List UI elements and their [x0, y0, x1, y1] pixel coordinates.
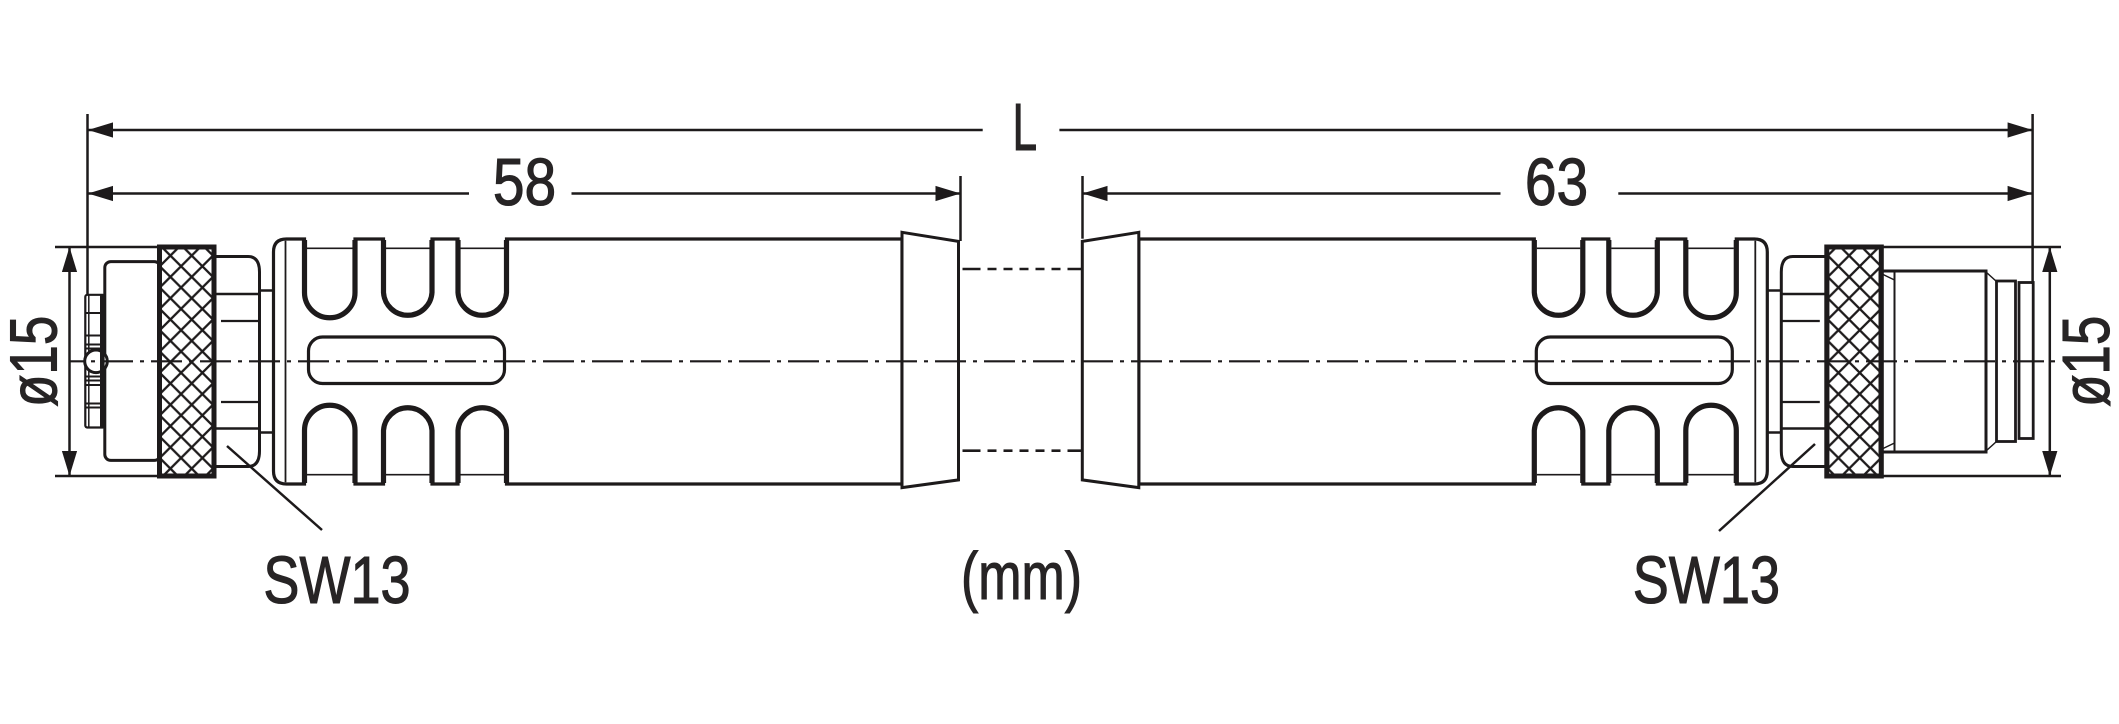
- right connector step cylinder: [1997, 281, 2016, 442]
- socket center circle: [85, 350, 108, 373]
- dimension dia 15 right: [1878, 247, 2061, 476]
- svg-text:(mm): (mm): [961, 539, 1082, 614]
- socket face ring bar: [100, 296, 105, 427]
- SW13 leader right: [1719, 444, 1815, 531]
- SW13 leader left: [227, 446, 322, 530]
- left connector socket face plate: [85, 295, 105, 428]
- dimension 63: [1081, 176, 1084, 239]
- svg-text:L: L: [1013, 91, 1038, 165]
- right connector common back half (mirrored): [1082, 232, 1881, 487]
- svg-text:63: 63: [1525, 146, 1588, 220]
- svg-text:ø15: ø15: [0, 316, 71, 407]
- dimension L: [86, 114, 89, 295]
- svg-text:58: 58: [493, 146, 556, 220]
- right connector tip: [2019, 283, 2033, 439]
- cable break dashed outlines: [963, 269, 1083, 451]
- dimension dia 15 left: [55, 247, 160, 476]
- svg-text:ø15: ø15: [2048, 316, 2119, 407]
- svg-text:SW13: SW13: [1633, 542, 1780, 617]
- right connector thread body M12: [1880, 271, 1986, 452]
- left connector front body: [105, 262, 161, 461]
- left connector common back half: [160, 232, 959, 487]
- center line: [69, 360, 2061, 362]
- svg-text:SW13: SW13: [263, 542, 410, 617]
- socket contact lines: [85, 313, 100, 408]
- dimension 58: [959, 176, 962, 241]
